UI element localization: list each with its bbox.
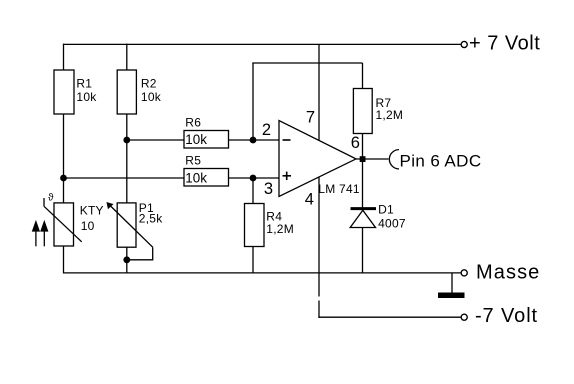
svg-text:LM 741: LM 741	[318, 182, 360, 196]
terminal +7V	[461, 41, 467, 47]
resistor R7	[353, 89, 403, 134]
svg-text:KTY: KTY	[80, 203, 104, 217]
svg-text:Masse: Masse	[476, 261, 540, 283]
wire R5 to op-amp pin 3	[229, 177, 280, 179]
wire R4 bottom to Masse rail	[252, 247, 254, 274]
svg-text:3: 3	[264, 180, 273, 198]
svg-text:ϑ: ϑ	[48, 193, 54, 204]
svg-text:1,2M: 1,2M	[266, 222, 294, 236]
wire pin 4 down	[318, 177, 320, 296]
svg-text:R1: R1	[76, 77, 92, 91]
svg-text:Pin 6 ADC: Pin 6 ADC	[400, 152, 482, 171]
potentiometer P1	[107, 201, 164, 247]
terminal -7V	[461, 314, 467, 320]
wire R2 column top	[126, 44, 128, 70]
node junction P1 wiper	[123, 256, 130, 263]
node output junction	[360, 156, 366, 162]
arrows at thermistor	[32, 221, 48, 247]
svg-text:10: 10	[81, 219, 95, 233]
wire pin 7 to +7V rail	[318, 44, 320, 140]
node junction R2/R6	[123, 137, 130, 144]
wire feedback horizontal	[252, 62, 362, 64]
wire node to R6	[127, 139, 184, 141]
wire R1 to KTY	[63, 114, 65, 203]
svg-text:10k: 10k	[76, 90, 97, 104]
svg-text:R5: R5	[185, 153, 201, 167]
wire pin 3 node to R4	[252, 178, 254, 204]
resistor R2	[117, 70, 162, 114]
wire feedback down to R7	[362, 63, 364, 89]
wire P1 wiper down	[127, 247, 153, 260]
resistor R6	[184, 116, 229, 148]
resistor R1	[54, 70, 97, 114]
svg-text:10k: 10k	[185, 170, 207, 185]
svg-text:4007: 4007	[378, 217, 406, 231]
terminal Masse	[461, 270, 467, 276]
wire R7 bottom to output node	[362, 134, 364, 160]
wire P1 bottom to Masse rail	[126, 247, 128, 273]
ground symbol	[438, 293, 465, 299]
node junction R1/R5	[60, 175, 67, 182]
wire R6 to op-amp pin 2	[229, 139, 280, 141]
resistor R4	[245, 204, 294, 247]
node junction pin3/R4	[250, 175, 257, 182]
svg-text:2: 2	[262, 121, 271, 139]
svg-text:10k: 10k	[141, 90, 162, 104]
thermistor KTY 10	[44, 193, 104, 247]
node junction pin2/feedback	[250, 137, 257, 144]
svg-text:R6: R6	[185, 116, 201, 130]
wire pin 4 to -7V rail	[318, 301, 320, 318]
wire node to R5	[64, 177, 185, 179]
resistor R5	[184, 153, 229, 186]
svg-text:6: 6	[351, 134, 360, 152]
op-amp U1 LM 741	[279, 121, 360, 197]
connector arc Pin 6 ADC	[389, 150, 399, 169]
svg-text:2,5k: 2,5k	[139, 212, 163, 226]
svg-text:R2: R2	[141, 77, 157, 91]
wire feedback vertical from pin 2 node	[252, 63, 254, 140]
svg-text:4: 4	[305, 191, 314, 209]
svg-text:D1: D1	[378, 203, 394, 217]
wire op-amp output	[356, 158, 389, 160]
svg-text:-7 Volt: -7 Volt	[475, 305, 538, 327]
wire Masse rail	[64, 272, 461, 274]
wire KTY to ground rail	[63, 246, 65, 274]
diode D1	[350, 203, 406, 231]
wire R2 to P1	[126, 114, 128, 203]
svg-text:7: 7	[306, 109, 315, 127]
wire R1 column top	[63, 44, 65, 70]
wire ground stub	[451, 273, 453, 293]
wire output node down to diode	[362, 159, 364, 207]
wire diode to Masse rail	[362, 210, 364, 274]
svg-text:10k: 10k	[185, 132, 207, 147]
wire -7V rail	[318, 316, 460, 318]
wire top +7V rail	[64, 43, 461, 45]
svg-text:1,2M: 1,2M	[376, 108, 404, 122]
svg-text:+ 7 Volt: + 7 Volt	[469, 33, 540, 55]
